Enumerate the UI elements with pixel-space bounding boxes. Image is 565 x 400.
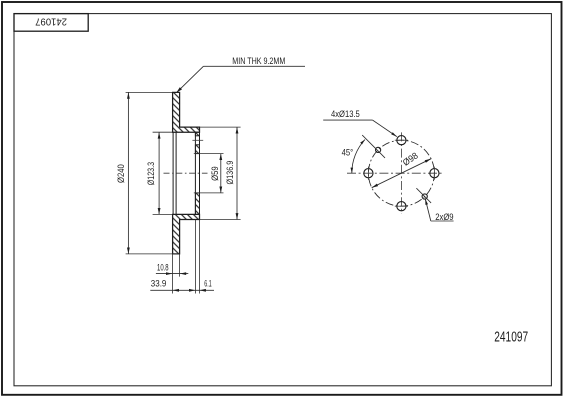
dimension 6.1 xyxy=(200,279,212,292)
mounting face wall upper segment above bolt hole (hatched) xyxy=(195,132,199,136)
leader MIN THK 9.2MM xyxy=(176,55,305,93)
bolt hole bottom (O13.5) xyxy=(395,202,408,211)
bolt hole right (O13.5) xyxy=(430,167,439,180)
svg-text:Ø136.9: Ø136.9 xyxy=(225,161,235,185)
disc axis centreline xyxy=(164,172,208,174)
dimension O98 across bolt circle xyxy=(372,150,431,187)
friction ring and hat flange, lower section (hatched) xyxy=(173,214,200,254)
friction ring and hat flange, upper section (hatched) xyxy=(173,92,200,132)
svg-text:MIN THK 9.2MM: MIN THK 9.2MM xyxy=(232,55,285,66)
svg-text:6.1: 6.1 xyxy=(204,279,211,289)
svg-text:45°: 45° xyxy=(342,147,354,157)
extension of mounting face left edge down xyxy=(194,220,196,294)
dimension O240 xyxy=(116,92,179,254)
label 2xO9 with leader xyxy=(425,199,453,222)
extension of mounting face right edge down xyxy=(199,220,201,294)
vertical centreline xyxy=(400,132,402,213)
bolt hole centreline in section xyxy=(192,139,203,141)
svg-text:241097: 241097 xyxy=(494,330,528,346)
mounting face wall segment between bolt hole and centre bore (hatched) xyxy=(195,145,199,154)
bolt hole top (O13.5) xyxy=(395,136,408,145)
dimension 33.9 xyxy=(150,279,214,292)
extension of inboard friction face line below section xyxy=(179,254,181,277)
svg-text:10.8: 10.8 xyxy=(157,262,169,272)
svg-text:Ø123.3: Ø123.3 xyxy=(146,162,156,185)
dimension O59 xyxy=(194,154,224,193)
svg-text:4xØ13.5: 4xØ13.5 xyxy=(331,109,360,119)
mounting face wall left edge full line xyxy=(194,132,196,214)
title box top-left xyxy=(14,14,88,32)
horizontal centreline xyxy=(347,172,442,174)
svg-text:Ø59: Ø59 xyxy=(210,166,220,181)
svg-text:241097: 241097 xyxy=(35,16,67,27)
bolt hole left (O13.5) xyxy=(364,167,373,180)
mounting face wall lower segment (hatched, no hole) xyxy=(195,193,199,215)
locating hole SE (O9) xyxy=(422,194,427,199)
locating hole NW (O9) xyxy=(376,147,381,152)
45 degree angular dimension arc xyxy=(342,140,365,174)
mounting face wall right edge full line xyxy=(199,132,201,214)
bolt circle O98 (dashed) xyxy=(368,140,434,206)
dimension 10.8 xyxy=(156,262,188,275)
svg-text:33.9: 33.9 xyxy=(151,279,167,289)
dimension O123.3 xyxy=(146,132,172,214)
hat inner profile line right xyxy=(175,132,177,214)
dimension O136.9 xyxy=(200,127,241,219)
label 4xO13.5 with leader xyxy=(323,109,397,137)
extension of outboard face line below section (for 10.8 / 33.9 dims) xyxy=(172,254,174,294)
SE 45-degree centreline through locating hole xyxy=(416,188,431,203)
svg-text:2xØ9: 2xØ9 xyxy=(435,212,453,222)
svg-text:Ø240: Ø240 xyxy=(116,164,126,183)
NW 45-degree centreline through locating hole xyxy=(362,135,385,158)
hat inner profile line left (outboard face edge) xyxy=(172,132,174,214)
